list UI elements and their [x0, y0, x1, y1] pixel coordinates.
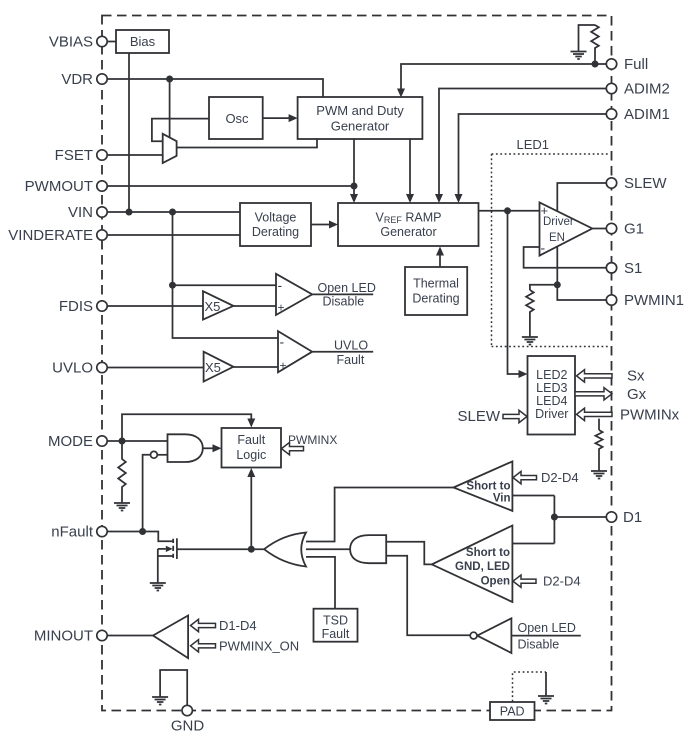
- svg-text:MODE: MODE: [48, 433, 93, 450]
- ground below Q1 source: [150, 583, 166, 591]
- open arrow PWMINX into Fault Logic: [282, 442, 304, 454]
- svg-text:Open LED: Open LED: [518, 621, 576, 635]
- svg-text:UVLO: UVLO: [334, 339, 368, 353]
- AND gate G1 with bubble input: [151, 434, 203, 462]
- svg-text:LED2: LED2: [536, 368, 567, 382]
- svg-text:SLEW: SLEW: [624, 175, 667, 192]
- open arrow D1-D4 into U12: [191, 619, 216, 631]
- svg-text:D2-D4: D2-D4: [543, 574, 581, 589]
- wire VIN: [107, 211, 240, 213]
- pin FDIS: [97, 301, 107, 311]
- svg-text:X5: X5: [205, 299, 221, 314]
- pin FSET: [97, 150, 107, 160]
- pin GND: [182, 705, 192, 715]
- open arrow Sx input: [577, 370, 613, 382]
- mux U2: [163, 134, 177, 163]
- svg-text:Logic: Logic: [236, 448, 266, 462]
- ground near Full: [571, 52, 587, 60]
- svg-text:FSET: FSET: [55, 147, 93, 164]
- arrowhead ADIM2 into VREF top: [435, 194, 443, 203]
- svg-text:VDR: VDR: [61, 71, 93, 88]
- wire comparator U3 output Open LED Disable: [312, 293, 373, 295]
- pin nFault: [97, 526, 107, 536]
- svg-text:Generator: Generator: [331, 118, 390, 133]
- wire to comparator U3 minus: [173, 284, 277, 286]
- pin UVLO: [97, 362, 107, 372]
- ground at GND pin: [152, 697, 168, 705]
- label UVLO Fault: [334, 339, 368, 368]
- amplifier A2 X5: [204, 352, 234, 382]
- svg-text:Gx: Gx: [627, 386, 647, 403]
- comparator U10 Short to Vin: [454, 461, 513, 511]
- block Voltage Derating: [240, 203, 311, 246]
- svg-text:-: -: [280, 334, 285, 350]
- svg-text:+: +: [278, 301, 285, 315]
- wire ADIM2: [439, 89, 607, 195]
- buffer U12 MINOUT: [153, 616, 188, 659]
- svg-text:PWMIN1: PWMIN1: [624, 292, 684, 309]
- ground below R4: [114, 503, 130, 511]
- svg-text:VIN: VIN: [68, 204, 93, 221]
- svg-text:EN: EN: [549, 232, 565, 244]
- wire FSET: [107, 154, 163, 156]
- wire Full net: [401, 64, 607, 89]
- svg-text:SLEW: SLEW: [457, 408, 500, 425]
- wire to resistor R2: [530, 285, 557, 290]
- wire FDIS: [107, 305, 203, 307]
- wire VIN sense vertical: [173, 212, 279, 338]
- wire TSD Fault to OR input: [306, 557, 335, 609]
- pin VBIAS: [97, 36, 107, 46]
- node PWMIN1 junction: [554, 281, 561, 288]
- node MODE junction: [119, 438, 126, 445]
- wire to LED234 driver: [508, 211, 520, 374]
- wire PAD dotted link: [513, 672, 547, 702]
- block Thermal Derating: [405, 267, 467, 315]
- svg-text:+: +: [280, 359, 287, 373]
- wire G1: [592, 228, 606, 230]
- inverter G4: [470, 618, 511, 653]
- wire Osc feedback loop: [152, 119, 209, 142]
- pin Full: [606, 59, 616, 69]
- svg-text:-: -: [541, 240, 546, 256]
- ground at PAD: [538, 696, 554, 704]
- or-gate G3: [264, 533, 306, 567]
- svg-text:Sx: Sx: [627, 368, 645, 385]
- svg-text:Open: Open: [481, 576, 510, 588]
- svg-text:-: -: [278, 277, 283, 293]
- svg-text:PWMINX_ON: PWMINX_ON: [219, 639, 299, 654]
- wire D1 net: [512, 496, 606, 544]
- wire EN feedback to S1: [524, 247, 607, 268]
- svg-text:PWMINx: PWMINx: [620, 407, 680, 424]
- node nFault junction: [139, 528, 146, 535]
- pin VINDERATE: [97, 230, 107, 240]
- arrowhead PWM out1 into VREF top: [350, 194, 358, 203]
- pin D1: [606, 512, 616, 522]
- svg-text:Osc: Osc: [225, 111, 249, 126]
- node VDR junction: [166, 76, 173, 83]
- wire VREF output to Driver: [479, 210, 540, 212]
- open arrow PWMINx input: [577, 408, 613, 420]
- wire Short-to-GND output to AND G2: [386, 542, 432, 565]
- resistor R4 MODE pulldown: [118, 441, 126, 503]
- node VREF output junction: [504, 207, 511, 214]
- wire MODE to Fault Logic top: [122, 414, 251, 441]
- pin SLEW: [606, 178, 616, 188]
- svg-text:PWMINX: PWMINX: [288, 433, 337, 447]
- svg-text:Fault: Fault: [337, 353, 365, 367]
- svg-text:Driver: Driver: [543, 216, 574, 228]
- wire X5 A1 output: [233, 305, 276, 307]
- resistor R2: [526, 290, 534, 337]
- wire VDR to mux select: [169, 79, 171, 138]
- wire R1 to ground link: [579, 25, 596, 51]
- wire Osc to PWM: [263, 117, 290, 119]
- svg-text:Fault: Fault: [237, 433, 265, 447]
- block TSD Fault: [314, 609, 358, 642]
- pin PWMIN1: [606, 295, 616, 305]
- arrowhead into LED234 driver: [519, 370, 528, 378]
- wire PWM output 1: [353, 139, 355, 195]
- svg-text:X5: X5: [205, 360, 221, 375]
- svg-text:GND, LED: GND, LED: [455, 561, 510, 573]
- svg-text:Open LED: Open LED: [318, 281, 376, 295]
- svg-text:Full: Full: [624, 56, 648, 73]
- block Osc: [209, 97, 263, 139]
- svg-text:GND: GND: [171, 718, 205, 735]
- wire VBIAS to Bias: [107, 41, 116, 43]
- pin VDR: [97, 74, 107, 84]
- svg-text:MINOUT: MINOUT: [34, 628, 93, 645]
- svg-text:D2-D4: D2-D4: [541, 470, 579, 485]
- wire inverter input Open LED Disable: [511, 635, 580, 637]
- wire AND G1 output to Fault Logic: [203, 447, 213, 449]
- label Open LED Disable lower: [518, 621, 576, 652]
- svg-text:Disable: Disable: [323, 295, 365, 309]
- arrowhead into Fault Logic top: [247, 419, 255, 428]
- svg-text:Vin: Vin: [493, 493, 511, 505]
- wire AND G2 input to inverter output: [386, 556, 470, 636]
- block PWM and Duty Generator U5: [298, 97, 423, 139]
- block PAD: [490, 702, 535, 720]
- svg-text:ADIM1: ADIM1: [624, 106, 670, 123]
- open arrow D2-D4 into U11: [513, 575, 536, 587]
- svg-text:Voltage: Voltage: [255, 210, 297, 224]
- label Open LED Disable: [318, 281, 376, 309]
- svg-text:LED3: LED3: [536, 381, 567, 395]
- block Bias: [116, 30, 169, 53]
- open arrow PWMINX_ON into U12: [191, 640, 216, 652]
- wire Short-to-Vin output to OR input: [306, 488, 454, 542]
- wire SLEW: [557, 183, 606, 211]
- node comparator branch junction: [169, 282, 176, 289]
- svg-text:VBIAS: VBIAS: [49, 34, 93, 51]
- svg-text:G1: G1: [624, 221, 644, 238]
- comparator U11 Short to GND LED Open: [432, 526, 513, 603]
- wire PWMIN1: [557, 247, 606, 301]
- wire PWM output 2: [409, 139, 411, 195]
- svg-text:Driver: Driver: [535, 407, 568, 421]
- svg-text:D1-D4: D1-D4: [219, 618, 257, 633]
- arrowhead into Fault Logic bottom: [247, 468, 255, 477]
- wire Bias output vertical: [128, 53, 130, 212]
- wire VINDERATE: [107, 234, 240, 236]
- arrowhead into Fault Logic left: [213, 444, 222, 452]
- resistor R3: [595, 430, 602, 471]
- svg-text:Generator: Generator: [380, 225, 436, 239]
- pin ADIM2: [606, 83, 616, 93]
- pin ADIM1: [606, 109, 616, 119]
- wire Voltage Derating to VREF: [311, 224, 330, 226]
- node VIN junction 1: [126, 209, 133, 216]
- svg-text:FDIS: FDIS: [59, 298, 93, 315]
- comparator U4: [278, 331, 312, 372]
- wire ADIM1: [459, 114, 607, 195]
- wire MODE: [107, 440, 168, 442]
- comparator U3: [276, 274, 312, 315]
- svg-text:D1: D1: [623, 509, 642, 526]
- open arrow Gx output: [575, 388, 612, 400]
- svg-text:nFault: nFault: [51, 524, 94, 541]
- wire Thermal Derating to VREF: [439, 255, 441, 267]
- svg-text:PAD: PAD: [500, 705, 525, 719]
- svg-text:Derating: Derating: [412, 292, 459, 306]
- svg-text:LED1: LED1: [517, 137, 550, 152]
- arrowhead ADIM1 into VREF top: [455, 194, 463, 203]
- arrowhead into PWM left: [289, 114, 298, 122]
- svg-text:Short to: Short to: [466, 547, 510, 559]
- wire X5 A2 output: [233, 366, 278, 368]
- node D1 junction: [551, 514, 558, 521]
- wire PWMOUT: [107, 185, 354, 187]
- open arrow D2-D4 into U10: [513, 471, 537, 483]
- block LED2 LED3 LED4 Driver U8: [528, 356, 576, 435]
- svg-text:Thermal: Thermal: [413, 277, 459, 291]
- svg-text:PWMOUT: PWMOUT: [25, 178, 93, 195]
- open arrow SLEW input: [503, 410, 527, 422]
- wire AND G2 output to OR input: [306, 548, 350, 550]
- node Full junction: [592, 61, 599, 68]
- svg-text:Disable: Disable: [518, 638, 560, 652]
- wire mux output to PWM generator: [177, 139, 317, 148]
- wire GND pin loop: [160, 670, 187, 706]
- ground below R3: [591, 471, 607, 479]
- IC boundary dashed rectangle: [102, 16, 612, 711]
- svg-text:PWM and Duty: PWM and Duty: [316, 103, 404, 118]
- wire OR output to Fault Logic bottom: [250, 477, 252, 549]
- arrowhead PWM out2 into VREF top: [406, 194, 414, 203]
- LED1 dotted region: [492, 137, 610, 347]
- wire UVLO: [107, 367, 204, 369]
- block VREF RAMP Generator U6: [338, 203, 479, 246]
- node PWMOUT junction: [351, 183, 358, 190]
- block Fault Logic U9: [222, 428, 282, 468]
- wire PAD ground drop: [545, 672, 547, 696]
- pin PWMOUT: [97, 181, 107, 191]
- arrowhead Thermal into VREF bottom: [436, 247, 444, 256]
- svg-text:Derating: Derating: [252, 225, 299, 239]
- node gate-FaultLogic junction: [248, 546, 255, 553]
- pin VIN: [97, 207, 107, 217]
- svg-text:Bias: Bias: [130, 34, 156, 49]
- svg-text:UVLO: UVLO: [52, 360, 93, 377]
- wire Q1 gate from OR output: [177, 548, 264, 550]
- svg-text:Fault: Fault: [322, 627, 350, 641]
- wire nFault: [107, 532, 173, 542]
- svg-text:Short to: Short to: [466, 481, 510, 493]
- svg-text:LED4: LED4: [536, 394, 567, 408]
- arrowhead Full into PWM top: [397, 89, 405, 98]
- arrowhead into VREF left: [329, 221, 338, 229]
- svg-text:TSD: TSD: [323, 614, 348, 628]
- wire MINOUT: [107, 635, 153, 637]
- transistor Q1 nFault open drain: [158, 538, 177, 583]
- node VIN junction 2: [169, 209, 176, 216]
- pin S1: [606, 263, 616, 273]
- pin MODE: [97, 436, 107, 446]
- ground below R2: [522, 337, 538, 345]
- svg-text:ADIM2: ADIM2: [624, 81, 670, 98]
- amplifier A1 X5: [203, 291, 233, 319]
- op-amp U7 Driver: [540, 202, 593, 255]
- wire PWMINx pulldown: [598, 419, 600, 430]
- and-gate G2: [350, 535, 386, 563]
- wire nFault to AND gate bubble: [143, 455, 151, 532]
- wire comparator U4 output UVLO Fault: [312, 351, 373, 353]
- svg-text:VINDERATE: VINDERATE: [8, 227, 93, 244]
- wire VDR net: [107, 79, 323, 98]
- pin MINOUT: [97, 630, 107, 640]
- resistor R1 Full pull-down: [591, 25, 599, 64]
- pin G1: [606, 223, 616, 233]
- svg-text:S1: S1: [624, 260, 642, 277]
